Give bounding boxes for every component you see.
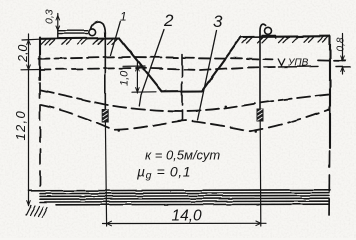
- ground surface left berm: [40, 37, 119, 40]
- right wellpoint base: [262, 35, 276, 38]
- dimension 0,8 arrows: [341, 56, 345, 72]
- svg-text:1,0: 1,0: [119, 70, 131, 86]
- right wellpoint hook pipe: [260, 24, 266, 38]
- svg-text:0,8: 0,8: [336, 37, 347, 51]
- dimension 0,8 line upper part: [342, 34, 344, 61]
- svg-text:0,3: 0,3: [44, 9, 56, 24]
- svg-text:µg = 0,1: µg = 0,1: [137, 164, 191, 182]
- left wellpoint riser pipe: [104, 33, 106, 109]
- leader line for label 1: [111, 22, 121, 56]
- dimension 14,0 line: [103, 222, 267, 224]
- ground hatching left berm: [41, 38, 118, 45]
- svg-text:1: 1: [120, 10, 127, 24]
- hatching under band left end: [26, 205, 47, 217]
- right wellpoint extension line to dimension: [259, 122, 262, 227]
- row 2 underline below UPV label: [278, 65, 318, 68]
- svg-text:14,0: 14,0: [172, 208, 203, 225]
- dimension 0,3 line: [57, 14, 59, 29]
- svg-text:12,0: 12,0: [13, 110, 28, 141]
- depression curve U (upper, to wellpoint filters): [41, 90, 329, 112]
- right wellpoint pump: [265, 27, 272, 34]
- left wellpoint hook pipe: [91, 22, 105, 33]
- groundwater level symbol nabla: [278, 59, 285, 68]
- dimension 1,0 arrows: [136, 66, 140, 92]
- groundwater table UPV dashed line (row 1): [39, 57, 272, 59]
- svg-text:к = 0,5м/сут: к = 0,5м/сут: [145, 148, 220, 163]
- aquifer bottom band: [29, 190, 331, 205]
- trench bottom: [162, 90, 202, 92]
- left wellpoint pump: [89, 29, 96, 36]
- dimension 1,0 line: [136, 63, 138, 94]
- dimension 1,0 ticks: [123, 66, 156, 92]
- dimension 0,8 line lower part: [342, 67, 344, 74]
- row 2 right tick: [336, 66, 350, 68]
- dimension 2,0 / 12,0 main line: [28, 34, 30, 206]
- svg-text:2: 2: [163, 11, 174, 30]
- depression curve L dots: [119, 131, 257, 132]
- dimension 0,3 arrows: [56, 16, 60, 31]
- ground hatching right berm: [243, 37, 329, 44]
- svg-text:УПВ: УПВ: [287, 58, 309, 69]
- hand-drawn wobble filter: [0, 0, 1, 1]
- depression curve U dots: [196, 107, 226, 112]
- trench right slope: [202, 37, 241, 91]
- left wellpoint extension line to dimension: [105, 123, 106, 227]
- dimension arrows left line: [27, 40, 31, 45]
- ground surface right berm: [241, 35, 330, 38]
- leader line for label 2: [139, 30, 164, 107]
- left section edge (solid then dashed): [39, 38, 41, 81]
- paper scan noise: [0, 0, 1, 1]
- svg-text:3: 3: [213, 12, 223, 31]
- ground level tick left: [22, 38, 40, 41]
- right wellpoint riser pipe: [259, 39, 261, 109]
- trench centerline: [181, 54, 183, 120]
- dimension 14,0 arrows: [107, 221, 261, 226]
- depression curve L (lower drawdown curve): [41, 105, 329, 131]
- groundwater table UPV dashed line right of label: [318, 59, 348, 62]
- left wellpoint header pipe: [58, 29, 88, 38]
- svg-text:2,0: 2,0: [16, 45, 30, 63]
- required lowered level dashed line (row 2): [40, 67, 276, 70]
- row 2 level tick left: [21, 69, 40, 71]
- leader line for label 3: [198, 31, 217, 121]
- trench left slope: [119, 38, 162, 91]
- right section edge (solid then dashed): [329, 36, 331, 148]
